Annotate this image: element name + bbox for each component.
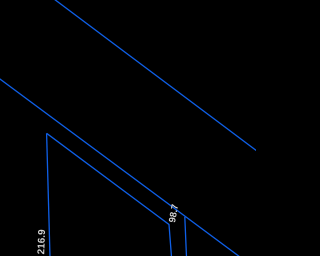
parcel boundary line 2 (lower diagonal, full crossing)	[0, 78, 240, 256]
lot line C (short vertical hanging from line 2)	[185, 217, 187, 256]
dimension label 216.9 (rotated)	[37, 230, 45, 255]
parcel boundary line 1 (upper diagonal)	[54, 0, 257, 151]
lot line A (vertical from apex)	[47, 133, 50, 256]
parcel boundary line 3 (apex diagonal with vertical leg)	[47, 133, 172, 256]
dimension label 98.7 (rotated)	[169, 204, 179, 223]
